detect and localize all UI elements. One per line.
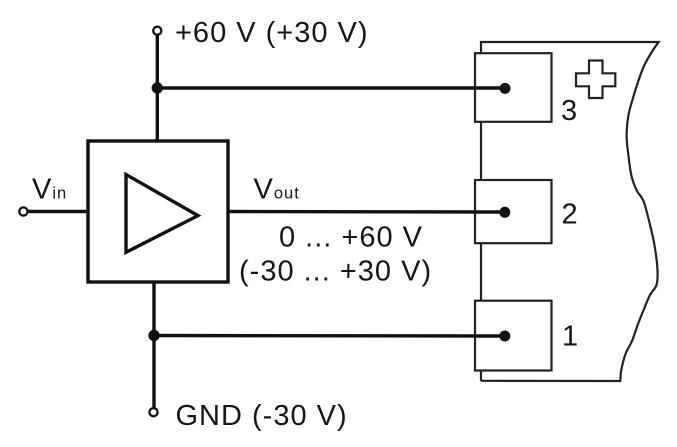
polarity cross symbol bbox=[576, 61, 615, 99]
wire +60V vertical from supply terminal to amp top bbox=[156, 35, 159, 140]
pin 1 contact dot bbox=[499, 331, 510, 342]
connector pad 3 bbox=[475, 53, 552, 122]
wire stub into pad 1 bbox=[474, 334, 505, 337]
wire ground horizontal to pin 1 bbox=[154, 334, 505, 338]
svg-text:0 ... +60 V: 0 ... +60 V bbox=[279, 222, 423, 254]
op-amp triangle bbox=[126, 175, 198, 253]
wire supply horizontal to pin 3 bbox=[157, 86, 505, 89]
wire GND vertical from amp bottom to ground terminal bbox=[152, 282, 155, 408]
wire stub into pad 2 bbox=[474, 210, 505, 213]
pin 3 contact dot bbox=[500, 83, 511, 94]
pin 2 contact dot bbox=[499, 207, 510, 218]
wire output to pin 2 bbox=[228, 210, 505, 214]
connector panel outline (torn right edge) bbox=[481, 42, 659, 381]
terminal +60V (open circle) bbox=[153, 27, 161, 35]
terminal GND (open circle) bbox=[149, 408, 157, 416]
svg-text:+60 V (+30 V): +60 V (+30 V) bbox=[175, 17, 369, 49]
svg-text:GND (-30 V): GND (-30 V) bbox=[176, 400, 348, 432]
svg-text:1: 1 bbox=[562, 320, 579, 352]
svg-text:3: 3 bbox=[561, 95, 578, 127]
wire stub into pad 3 bbox=[474, 86, 505, 89]
svg-text:2: 2 bbox=[562, 199, 579, 231]
connector pad 1 bbox=[475, 301, 552, 371]
connector pad 2 bbox=[475, 180, 552, 243]
junction dot at ground node bbox=[148, 330, 159, 341]
op-amp U1 box bbox=[88, 141, 228, 282]
svg-text:(-30 ... +30 V): (-30 ... +30 V) bbox=[239, 256, 432, 288]
junction dot at supply node bbox=[152, 82, 163, 93]
terminal Vin (open circle) bbox=[19, 207, 27, 215]
wire input from terminal to amplifier bbox=[28, 210, 88, 213]
